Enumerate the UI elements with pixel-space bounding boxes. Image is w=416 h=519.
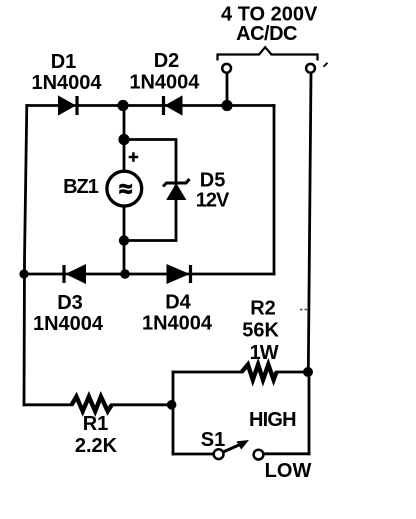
svg-text:D5: D5: [200, 170, 226, 192]
svg-text:12V: 12V: [196, 190, 230, 212]
svg-text:BZ1: BZ1: [63, 176, 99, 198]
svg-text:S1: S1: [201, 429, 225, 451]
svg-text:1N4004: 1N4004: [142, 313, 213, 335]
svg-text:56K: 56K: [242, 319, 279, 341]
svg-text:LOW: LOW: [265, 460, 312, 482]
svg-text:D4: D4: [165, 292, 191, 314]
svg-text:1W: 1W: [250, 342, 279, 364]
svg-text:1N4004: 1N4004: [31, 72, 102, 94]
svg-text:R2: R2: [250, 298, 276, 320]
svg-text:D3: D3: [57, 292, 83, 314]
svg-text:≈: ≈: [119, 175, 132, 201]
svg-text:AC/DC: AC/DC: [236, 23, 297, 45]
svg-text:D2: D2: [154, 50, 180, 72]
svg-text:1N4004: 1N4004: [129, 72, 200, 94]
svg-text:R1: R1: [83, 413, 109, 435]
svg-text:D1: D1: [51, 51, 77, 73]
svg-text:HIGH: HIGH: [249, 409, 296, 431]
svg-text:1N4004: 1N4004: [33, 313, 104, 335]
svg-text:2.2K: 2.2K: [75, 435, 118, 457]
